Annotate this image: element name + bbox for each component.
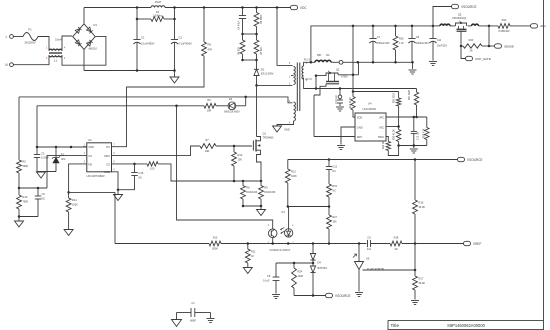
svg-text:R14: R14 <box>72 198 77 202</box>
wire to VSOURCE terminal <box>294 294 326 297</box>
capacitor C2 <box>171 19 192 71</box>
wire bridge minus down <box>83 49 85 70</box>
wire D4 mid <box>276 262 313 265</box>
svg-text:+Bus: +Bus <box>540 24 547 28</box>
sheet border right edge <box>543 0 545 330</box>
capacitor C16 <box>177 301 211 323</box>
resistor R9 <box>259 181 276 206</box>
wire shunt bottom <box>242 205 263 209</box>
svg-text:R4 82K: R4 82K <box>238 46 241 55</box>
wire VDD pin <box>83 146 87 148</box>
svg-text:NC: NC <box>333 189 337 192</box>
svg-text:TBLK: TBLK <box>378 135 385 139</box>
svg-text:UCC24636: UCC24636 <box>363 107 377 111</box>
wire VS sense line <box>19 96 293 103</box>
node VS <box>18 187 47 190</box>
capacitor C12 <box>411 117 420 146</box>
svg-text:VSOURCE: VSOURCE <box>461 5 477 9</box>
resistor R4b <box>254 34 263 60</box>
svg-text:R25 43.2K: R25 43.2K <box>394 129 396 140</box>
svg-text:10K: 10K <box>238 159 243 162</box>
svg-text:0.05R/2W: 0.05R/2W <box>498 30 510 33</box>
resistor R3 clamp top <box>254 8 263 35</box>
diode D3 <box>216 97 246 114</box>
wire FB net <box>115 242 367 245</box>
wire U4 sense gnd <box>397 144 426 148</box>
svg-text:GND: GND <box>357 125 363 129</box>
wire DRV trace U4 <box>314 95 355 137</box>
svg-text:GND: GND <box>284 128 290 132</box>
svg-text:1K: 1K <box>251 255 254 258</box>
svg-text:VDD: VDD <box>357 115 363 119</box>
svg-text:D1: D1 <box>94 23 98 27</box>
svg-text:NC: NC <box>333 170 337 173</box>
terminal VDC <box>291 5 308 10</box>
resistor R14 <box>66 192 78 229</box>
svg-text:D2: D2 <box>261 68 265 72</box>
wire CS <box>112 163 148 165</box>
svg-text:100K: 100K <box>298 275 304 278</box>
wire fuse to L1 <box>38 37 49 51</box>
resistor R12 <box>285 160 297 207</box>
svg-text:VSC: VSC <box>379 125 384 129</box>
terminal VSOURCE top <box>452 4 477 9</box>
resistor R4a <box>238 34 245 60</box>
svg-text:VDD: VDD <box>88 145 94 149</box>
ferrite bead FB1 <box>315 54 331 63</box>
capacitor C10 <box>335 89 343 107</box>
ground output rail <box>409 62 417 74</box>
ferrite bead FB2 <box>440 24 450 26</box>
svg-text:Title: Title <box>391 323 400 328</box>
wire L1 to bridge AC2 <box>62 36 106 65</box>
ground U4 sense <box>410 149 418 153</box>
capacitor C1 <box>133 19 154 71</box>
svg-text:1.00Meg: 1.00Meg <box>153 14 163 17</box>
svg-text:BAS316 600V: BAS316 600V <box>224 111 240 114</box>
resistor R13 gate pulldown <box>232 146 243 181</box>
svg-text:C5: C5 <box>267 274 271 278</box>
svg-text:R16: R16 <box>419 201 424 205</box>
svg-text:0.1uF/450V: 0.1uF/450V <box>179 42 193 46</box>
wire TL431 cathode <box>358 244 360 262</box>
zener D5 <box>52 147 66 172</box>
svg-text:49.9K: 49.9K <box>419 282 426 285</box>
wire FB to opto <box>69 192 115 243</box>
svg-text:VPC: VPC <box>379 115 384 119</box>
resistor R1 <box>136 8 176 22</box>
wire VDD node <box>36 106 87 148</box>
svg-text:FLY2: FLY2 <box>306 77 313 81</box>
diode D2 clamp <box>254 60 274 85</box>
svg-text:A7506: A7506 <box>341 75 348 78</box>
svg-text:ABS10: ABS10 <box>89 47 98 51</box>
capacitor C4 <box>238 8 247 35</box>
jumper J1 <box>331 60 414 64</box>
common-mode choke L1 <box>46 38 66 62</box>
svg-text:CSD16301Q2: CSD16301Q2 <box>452 18 467 20</box>
svg-text:UCC28740DR: UCC28740DR <box>87 174 105 178</box>
svg-text:R100/1206: R100/1206 <box>264 192 276 194</box>
wire sense tap <box>460 26 491 47</box>
resistor R29 TBLK <box>383 137 399 156</box>
wire output plus rail <box>311 25 434 63</box>
wire L1 to bridge AC1 <box>62 36 72 50</box>
svg-text:VS: VS <box>88 154 92 158</box>
svg-text:R19 22.1K: R19 22.1K <box>350 97 352 108</box>
svg-text:C15: C15 <box>139 171 144 175</box>
wire zener gnd <box>37 171 56 173</box>
wire OCP gate <box>461 46 466 59</box>
wire FLY1 <box>304 58 315 66</box>
resistor R7 <box>200 138 252 153</box>
wire shunt top <box>233 180 263 183</box>
svg-text:FLY1: FLY1 <box>304 58 311 62</box>
capacitor C6 <box>35 188 46 217</box>
svg-text:0.1uF: 0.1uF <box>263 280 270 283</box>
diode D4a <box>310 244 315 264</box>
svg-text:R29 2K: R29 2K <box>383 141 385 149</box>
ground FB divider <box>64 230 73 236</box>
ground C16 primary <box>172 320 182 327</box>
wire VSC <box>386 125 400 128</box>
ground R17 <box>411 301 419 305</box>
ground primary at C2 <box>170 77 179 83</box>
wire TL431 ref <box>363 269 417 272</box>
wire bridge plus to top rail <box>83 8 85 24</box>
svg-text:BAT54S: BAT54S <box>318 266 328 270</box>
svg-text:VREF: VREF <box>473 242 481 246</box>
wire GND pin <box>112 172 120 194</box>
svg-text:VSOURCE: VSOURCE <box>335 294 351 298</box>
wire Q2 drain <box>338 26 359 76</box>
resistor R17 <box>413 276 426 290</box>
svg-text:10uF/25V: 10uF/25V <box>437 45 448 48</box>
resistor R6 <box>204 98 216 113</box>
capacitor C8 <box>408 26 429 62</box>
wire divider gnd <box>18 215 38 220</box>
svg-text:R6: R6 <box>207 98 211 102</box>
capacitor C7 <box>369 26 390 62</box>
svg-text:GND: GND <box>104 170 110 174</box>
wire primary pin2 <box>257 84 293 86</box>
resistor R21 <box>409 89 419 118</box>
svg-text:C9: C9 <box>367 235 371 239</box>
ground U2 <box>114 195 123 201</box>
svg-text:NC: NC <box>139 176 143 179</box>
svg-text:R3 560K: R3 560K <box>260 14 263 24</box>
resistor R22 <box>498 18 531 33</box>
transformer T1 <box>289 62 308 124</box>
svg-text:L: L <box>6 35 8 39</box>
terminal VSOURCE mid <box>458 157 483 162</box>
svg-text:R28 4.3K: R28 4.3K <box>423 128 425 138</box>
svg-text:CS: CS <box>106 162 110 166</box>
wire VDD line <box>37 105 204 108</box>
svg-text:C11: C11 <box>437 38 442 42</box>
terminal SENSE <box>495 44 514 49</box>
wire N to L1 <box>13 56 49 65</box>
resistor R10b <box>209 237 221 251</box>
svg-text:R13: R13 <box>238 153 243 157</box>
svg-text:C7: C7 <box>377 35 381 39</box>
resistor R12cs <box>147 162 234 181</box>
svg-text:R5 82K: R5 82K <box>260 46 263 55</box>
svg-text:FB: FB <box>88 162 92 166</box>
svg-text:S9P1460062A00000: S9P1460062A00000 <box>447 323 486 328</box>
fuse F1 <box>23 28 38 45</box>
wire U4 gnd <box>341 127 355 145</box>
wire VSOURCE divider <box>414 160 416 300</box>
title block <box>388 320 544 330</box>
svg-text:R27: R27 <box>333 216 338 219</box>
inductor L2 <box>151 0 165 7</box>
svg-text:R17: R17 <box>419 277 424 281</box>
svg-text:10R: 10R <box>207 110 212 113</box>
svg-text:VDC: VDC <box>300 6 307 10</box>
svg-text:DRV: DRV <box>104 154 110 158</box>
wire TL431 anode <box>358 270 360 292</box>
ground TL431 <box>355 293 363 297</box>
svg-text:D3: D3 <box>229 97 233 101</box>
capacitor C9 <box>367 235 390 250</box>
svg-text:C13: C13 <box>333 166 338 169</box>
svg-text:D4: D4 <box>318 261 322 265</box>
svg-text:U2: U2 <box>88 138 92 142</box>
wire VSOURCE top <box>433 7 452 26</box>
svg-text:49.9K: 49.9K <box>419 206 426 209</box>
svg-text:560K: 560K <box>23 165 29 168</box>
wire SR source line <box>315 74 417 89</box>
svg-text:R26: R26 <box>399 38 404 41</box>
svg-text:1R: 1R <box>469 50 472 53</box>
resistor R28 <box>423 117 429 146</box>
capacitor C3 <box>34 147 49 172</box>
ground C10 <box>336 107 344 111</box>
svg-text:VSOURCE: VSOURCE <box>467 158 483 162</box>
svg-text:2n2: 2n2 <box>367 248 372 251</box>
resistor R16 <box>413 200 426 214</box>
svg-text:R15: R15 <box>333 185 338 188</box>
wire VSOURCE rail <box>288 158 458 161</box>
svg-text:TPD8N60: TPD8N60 <box>263 137 275 140</box>
diode D4b <box>310 261 327 296</box>
op-amp U4 UCC24636 <box>355 101 386 141</box>
resistor R25 <box>394 127 401 146</box>
wire drain <box>256 85 258 136</box>
wire clamp node2 <box>241 59 258 62</box>
terminal N <box>5 63 13 67</box>
svg-text:680P: 680P <box>190 320 196 323</box>
svg-text:750K: 750K <box>23 201 29 204</box>
svg-text:2R: 2R <box>394 248 397 251</box>
wire clamp node1 <box>241 33 258 36</box>
svg-text:R23: R23 <box>469 38 474 42</box>
svg-text:L1: L1 <box>54 59 58 63</box>
svg-text:R21 392K: R21 392K <box>409 89 411 100</box>
svg-text:3A/250V: 3A/250V <box>24 41 35 45</box>
terminal OCP_GATE <box>466 56 491 61</box>
ground aux GND <box>273 126 290 132</box>
terminal VREF <box>464 241 482 246</box>
resistor R2 <box>17 97 29 188</box>
wire VDC to primary pin5 <box>277 8 293 66</box>
svg-text:OCP_GATE: OCP_GATE <box>475 57 491 61</box>
resistor R27 <box>327 207 338 244</box>
bridge rectifier D1 <box>73 23 98 51</box>
wire output to Q5 <box>433 25 440 27</box>
wire opto emitter <box>272 238 274 244</box>
svg-text:C3: C3 <box>41 152 45 156</box>
svg-text:NC: NC <box>42 198 46 201</box>
wire VDC top rail <box>84 6 291 9</box>
resistor R19 <box>350 92 355 118</box>
svg-text:10mH: 10mH <box>55 38 62 41</box>
svg-text:1000uF/16V: 1000uF/16V <box>416 42 429 45</box>
ground R11 <box>243 268 252 274</box>
svg-text:R12: R12 <box>291 170 296 174</box>
resistor R5 <box>202 8 213 57</box>
svg-text:R11: R11 <box>251 251 256 254</box>
svg-text:R22: R22 <box>502 18 507 22</box>
svg-text:1.00: 1.00 <box>150 168 155 171</box>
svg-text:R5: R5 <box>208 43 212 47</box>
svg-text:C10 1uF: C10 1uF <box>335 94 338 104</box>
svg-text:0.1uF/450V: 0.1uF/450V <box>141 42 155 46</box>
wire L to fuse <box>13 36 23 38</box>
ground C16 secondary <box>207 319 215 323</box>
svg-text:C4 47pF: C4 47pF <box>238 20 241 30</box>
resistor R20 <box>394 92 401 126</box>
svg-text:R24: R24 <box>298 270 303 274</box>
capacitor C15 <box>118 163 144 190</box>
wire DC minus rail <box>84 69 176 77</box>
wire aux pin4 to ground <box>277 121 294 126</box>
svg-text:0.33uF: 0.33uF <box>41 157 49 160</box>
capacitor C13 <box>326 158 338 184</box>
svg-text:30V: 30V <box>61 158 66 161</box>
svg-text:10R: 10R <box>205 150 210 153</box>
wire opto led top <box>288 207 290 229</box>
svg-text:Q1: Q1 <box>263 132 267 136</box>
resistor R11 <box>245 244 256 268</box>
svg-text:500K: 500K <box>212 247 218 250</box>
svg-text:NC: NC <box>326 54 330 57</box>
svg-text:U5: U5 <box>366 256 370 260</box>
svg-text:C1: C1 <box>141 36 145 40</box>
ground power primary <box>257 210 266 216</box>
capacitor C11 <box>429 26 447 61</box>
transistor Q1 <box>253 132 274 182</box>
svg-text:HV: HV <box>106 145 110 149</box>
terminal +BUS <box>531 24 547 29</box>
op-amp U2 UCC28740 <box>84 138 116 178</box>
ferrite bead FB3 <box>468 24 499 27</box>
svg-text:U3: U3 <box>281 210 285 214</box>
ground VDD local <box>37 172 46 178</box>
svg-text:C2: C2 <box>179 36 183 40</box>
wire FLY2 <box>304 77 316 89</box>
svg-text:47K: 47K <box>208 48 213 52</box>
svg-text:100K: 100K <box>72 204 78 207</box>
svg-text:C1: C1 <box>191 301 195 305</box>
terminal L <box>6 35 14 39</box>
svg-text:1.2K: 1.2K <box>399 42 404 45</box>
svg-text:100K: 100K <box>291 175 297 178</box>
wire FB pin <box>67 164 86 194</box>
optocoupler U3 <box>268 210 294 252</box>
resistor R24 <box>292 263 304 296</box>
svg-text:R20 221K: R20 221K <box>394 92 396 103</box>
svg-text:R7: R7 <box>205 138 209 142</box>
svg-text:VOS617A-X001T: VOS617A-X001T <box>270 248 291 252</box>
wire VPC <box>386 116 427 119</box>
resistor R26 <box>393 26 404 62</box>
svg-text:FB1: FB1 <box>317 54 322 57</box>
resistor R8 <box>241 181 258 206</box>
svg-text:U4: U4 <box>368 101 372 105</box>
capacitor C5 <box>263 263 279 294</box>
svg-text:46uH: 46uH <box>155 0 162 4</box>
svg-text:R100/1206: R100/1206 <box>246 192 258 194</box>
svg-text:R2: R2 <box>23 160 27 164</box>
svg-text:C8: C8 <box>416 35 420 39</box>
svg-text:C6: C6 <box>42 192 46 196</box>
node primary switch <box>255 84 258 87</box>
transistor Q5 <box>450 14 467 47</box>
wire drain sense line <box>352 75 399 93</box>
wire DRV <box>112 146 201 156</box>
resistor R15 <box>327 184 338 207</box>
wire R5 to HV pin <box>112 56 204 147</box>
svg-text:R10: R10 <box>23 195 28 199</box>
resistor R18 <box>390 235 464 250</box>
terminal VSOURCE low <box>326 293 351 298</box>
resistor R10 <box>17 188 29 217</box>
ground U4 <box>337 146 345 150</box>
ground C5 <box>272 295 280 299</box>
svg-text:SENSE: SENSE <box>504 44 514 48</box>
svg-text:F1: F1 <box>28 28 32 32</box>
transistor Q2 sync rect <box>316 68 348 84</box>
svg-text:C12 1uF: C12 1uF <box>418 131 420 140</box>
svg-text:1000uF/16V: 1000uF/16V <box>377 42 390 45</box>
TL431 U5 <box>353 254 384 271</box>
svg-text:R18: R18 <box>394 235 399 239</box>
ground C11 <box>429 62 437 66</box>
svg-text:ES1J 600V: ES1J 600V <box>261 73 274 76</box>
node opto anode <box>287 205 331 208</box>
resistor R23 <box>461 38 495 52</box>
wire Q2 gate <box>314 84 326 95</box>
wire opto collector <box>177 106 273 229</box>
ground VS divider <box>15 221 24 227</box>
svg-text:R10: R10 <box>213 237 218 240</box>
svg-text:DRV: DRV <box>357 135 363 139</box>
wire VS pin <box>47 156 87 188</box>
svg-text:10K: 10K <box>333 220 338 223</box>
